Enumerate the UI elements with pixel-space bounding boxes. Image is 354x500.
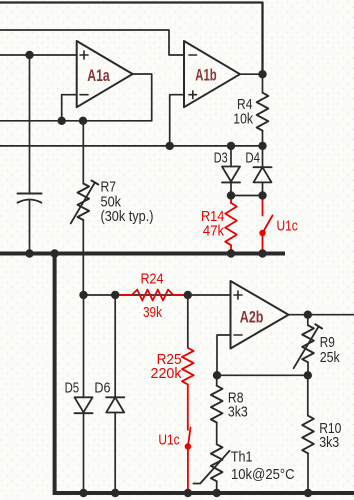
node D5 bottom junction bbox=[79, 489, 87, 497]
wire D6 branch bbox=[114, 295, 116, 397]
node R10 bottom junction bbox=[304, 489, 312, 497]
svg-text:25k: 25k bbox=[320, 350, 341, 366]
node A2b output junction bbox=[304, 311, 312, 319]
svg-text:10k@25°C: 10k@25°C bbox=[231, 467, 295, 483]
thermistor Th1 bbox=[193, 444, 229, 493]
node R14-bus junction bbox=[227, 249, 235, 257]
svg-text:R9: R9 bbox=[320, 335, 335, 351]
resistor R24 (red) bbox=[121, 290, 185, 301]
svg-text:3k3: 3k3 bbox=[228, 404, 248, 420]
node feedback-R7 junction bbox=[79, 117, 87, 125]
node D3 anode junction bbox=[227, 142, 235, 150]
capacitor C1 bbox=[18, 194, 42, 252]
resistor R7 (rheostat) bbox=[71, 121, 99, 295]
svg-text:(30k typ.): (30k typ.) bbox=[101, 209, 154, 225]
resistor R10 bbox=[302, 375, 314, 493]
wire D5 branch bbox=[83, 295, 85, 397]
svg-text:220k: 220k bbox=[151, 366, 183, 382]
op-amp A1a bbox=[77, 41, 133, 107]
resistor R8 bbox=[211, 375, 223, 444]
resistor R14 (red) bbox=[225, 198, 237, 251]
svg-text:D4: D4 bbox=[245, 151, 260, 167]
wire A1b output bbox=[240, 73, 263, 75]
svg-text:10k: 10k bbox=[233, 111, 253, 127]
resistor R25 (red, black lead) bbox=[182, 299, 194, 430]
node U1c top junction bbox=[258, 191, 266, 199]
node D6 junction bbox=[111, 291, 119, 299]
node R14 top junction bbox=[227, 191, 235, 199]
op-amp A1b bbox=[184, 41, 240, 107]
wire A1a non-inverting input rail bbox=[0, 54, 77, 56]
wire thick left branch bbox=[55, 254, 354, 494]
node A1a + input junction bbox=[25, 51, 33, 59]
op-amp A2b bbox=[231, 281, 289, 349]
node U1c bottom junction bbox=[184, 489, 192, 497]
node R9/R10 junction bbox=[304, 371, 312, 379]
svg-text:R7: R7 bbox=[101, 180, 117, 196]
svg-text:U1c: U1c bbox=[158, 433, 179, 449]
svg-text:3k3: 3k3 bbox=[319, 435, 339, 451]
resistor R9 (rheostat) bbox=[294, 315, 323, 376]
node R7/D5 junction bbox=[79, 291, 87, 299]
svg-text:Th1: Th1 bbox=[231, 450, 253, 466]
svg-text:D5: D5 bbox=[65, 381, 80, 397]
node A1b output junction bbox=[258, 70, 266, 78]
diode D5 bbox=[75, 397, 93, 493]
node Th1 bottom junction bbox=[213, 489, 221, 497]
svg-text:A2b: A2b bbox=[240, 308, 264, 327]
node R8 top junction bbox=[213, 371, 221, 379]
wire junction down to capacitor bbox=[29, 55, 31, 193]
node feedback-inverting junction bbox=[58, 117, 66, 125]
switch U1c (lower) bbox=[185, 428, 191, 492]
svg-text:47k: 47k bbox=[203, 224, 225, 240]
svg-text:D6: D6 bbox=[94, 381, 110, 397]
wire A1a inverting input feedback bbox=[62, 95, 77, 121]
node A1b + to rail junction bbox=[166, 142, 174, 150]
node D4/R4 junction bbox=[258, 142, 266, 150]
wire second rail to A1b inverting input bbox=[0, 30, 184, 55]
svg-text:39k: 39k bbox=[143, 305, 163, 321]
wire A2b inverting feedback bbox=[217, 335, 231, 375]
wire rail y146 to diodes bbox=[0, 145, 263, 147]
diode D3 bbox=[222, 146, 240, 196]
diode D4 bbox=[254, 146, 272, 196]
node D6 bottom junction bbox=[111, 489, 119, 497]
wire feedback rail y121 bbox=[0, 120, 152, 122]
wire bus rail (thick) bbox=[0, 252, 285, 256]
svg-text:A1a: A1a bbox=[87, 66, 110, 85]
wire top rail bbox=[0, 3, 263, 75]
wire lower mid rail y295 bbox=[84, 294, 231, 296]
node U1c-bus junction bbox=[258, 249, 266, 257]
svg-text:D3: D3 bbox=[214, 151, 228, 167]
wire diode cathode row bbox=[231, 195, 263, 197]
node thick branch junction bbox=[50, 249, 58, 257]
wire A1a output bbox=[133, 74, 152, 121]
resistor R4 bbox=[257, 74, 269, 146]
wire A1b non-inverting input bbox=[170, 95, 184, 146]
wire A2b output bbox=[289, 314, 354, 316]
switch U1c (upper) bbox=[259, 198, 272, 251]
svg-text:A1b: A1b bbox=[195, 66, 216, 85]
node capacitor-bus junction bbox=[25, 249, 33, 257]
diode D6 bbox=[106, 397, 124, 493]
svg-text:U1c: U1c bbox=[277, 219, 298, 235]
node R25 top junction bbox=[184, 291, 192, 299]
wire feedback rail y375 bbox=[217, 374, 308, 376]
svg-text:R24: R24 bbox=[141, 272, 164, 288]
svg-text:R14: R14 bbox=[201, 209, 224, 225]
